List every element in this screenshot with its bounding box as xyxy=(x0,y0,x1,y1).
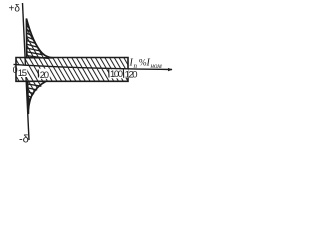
svg-text:ном: ном xyxy=(151,62,163,70)
svg-text:120: 120 xyxy=(125,70,138,81)
svg-text:15: 15 xyxy=(18,68,27,79)
svg-text:+δ: +δ xyxy=(9,4,21,15)
svg-text:20: 20 xyxy=(40,70,49,81)
svg-text:-δ: -δ xyxy=(19,134,29,146)
svg-text:100: 100 xyxy=(110,69,123,80)
svg-text:п: п xyxy=(134,62,138,70)
